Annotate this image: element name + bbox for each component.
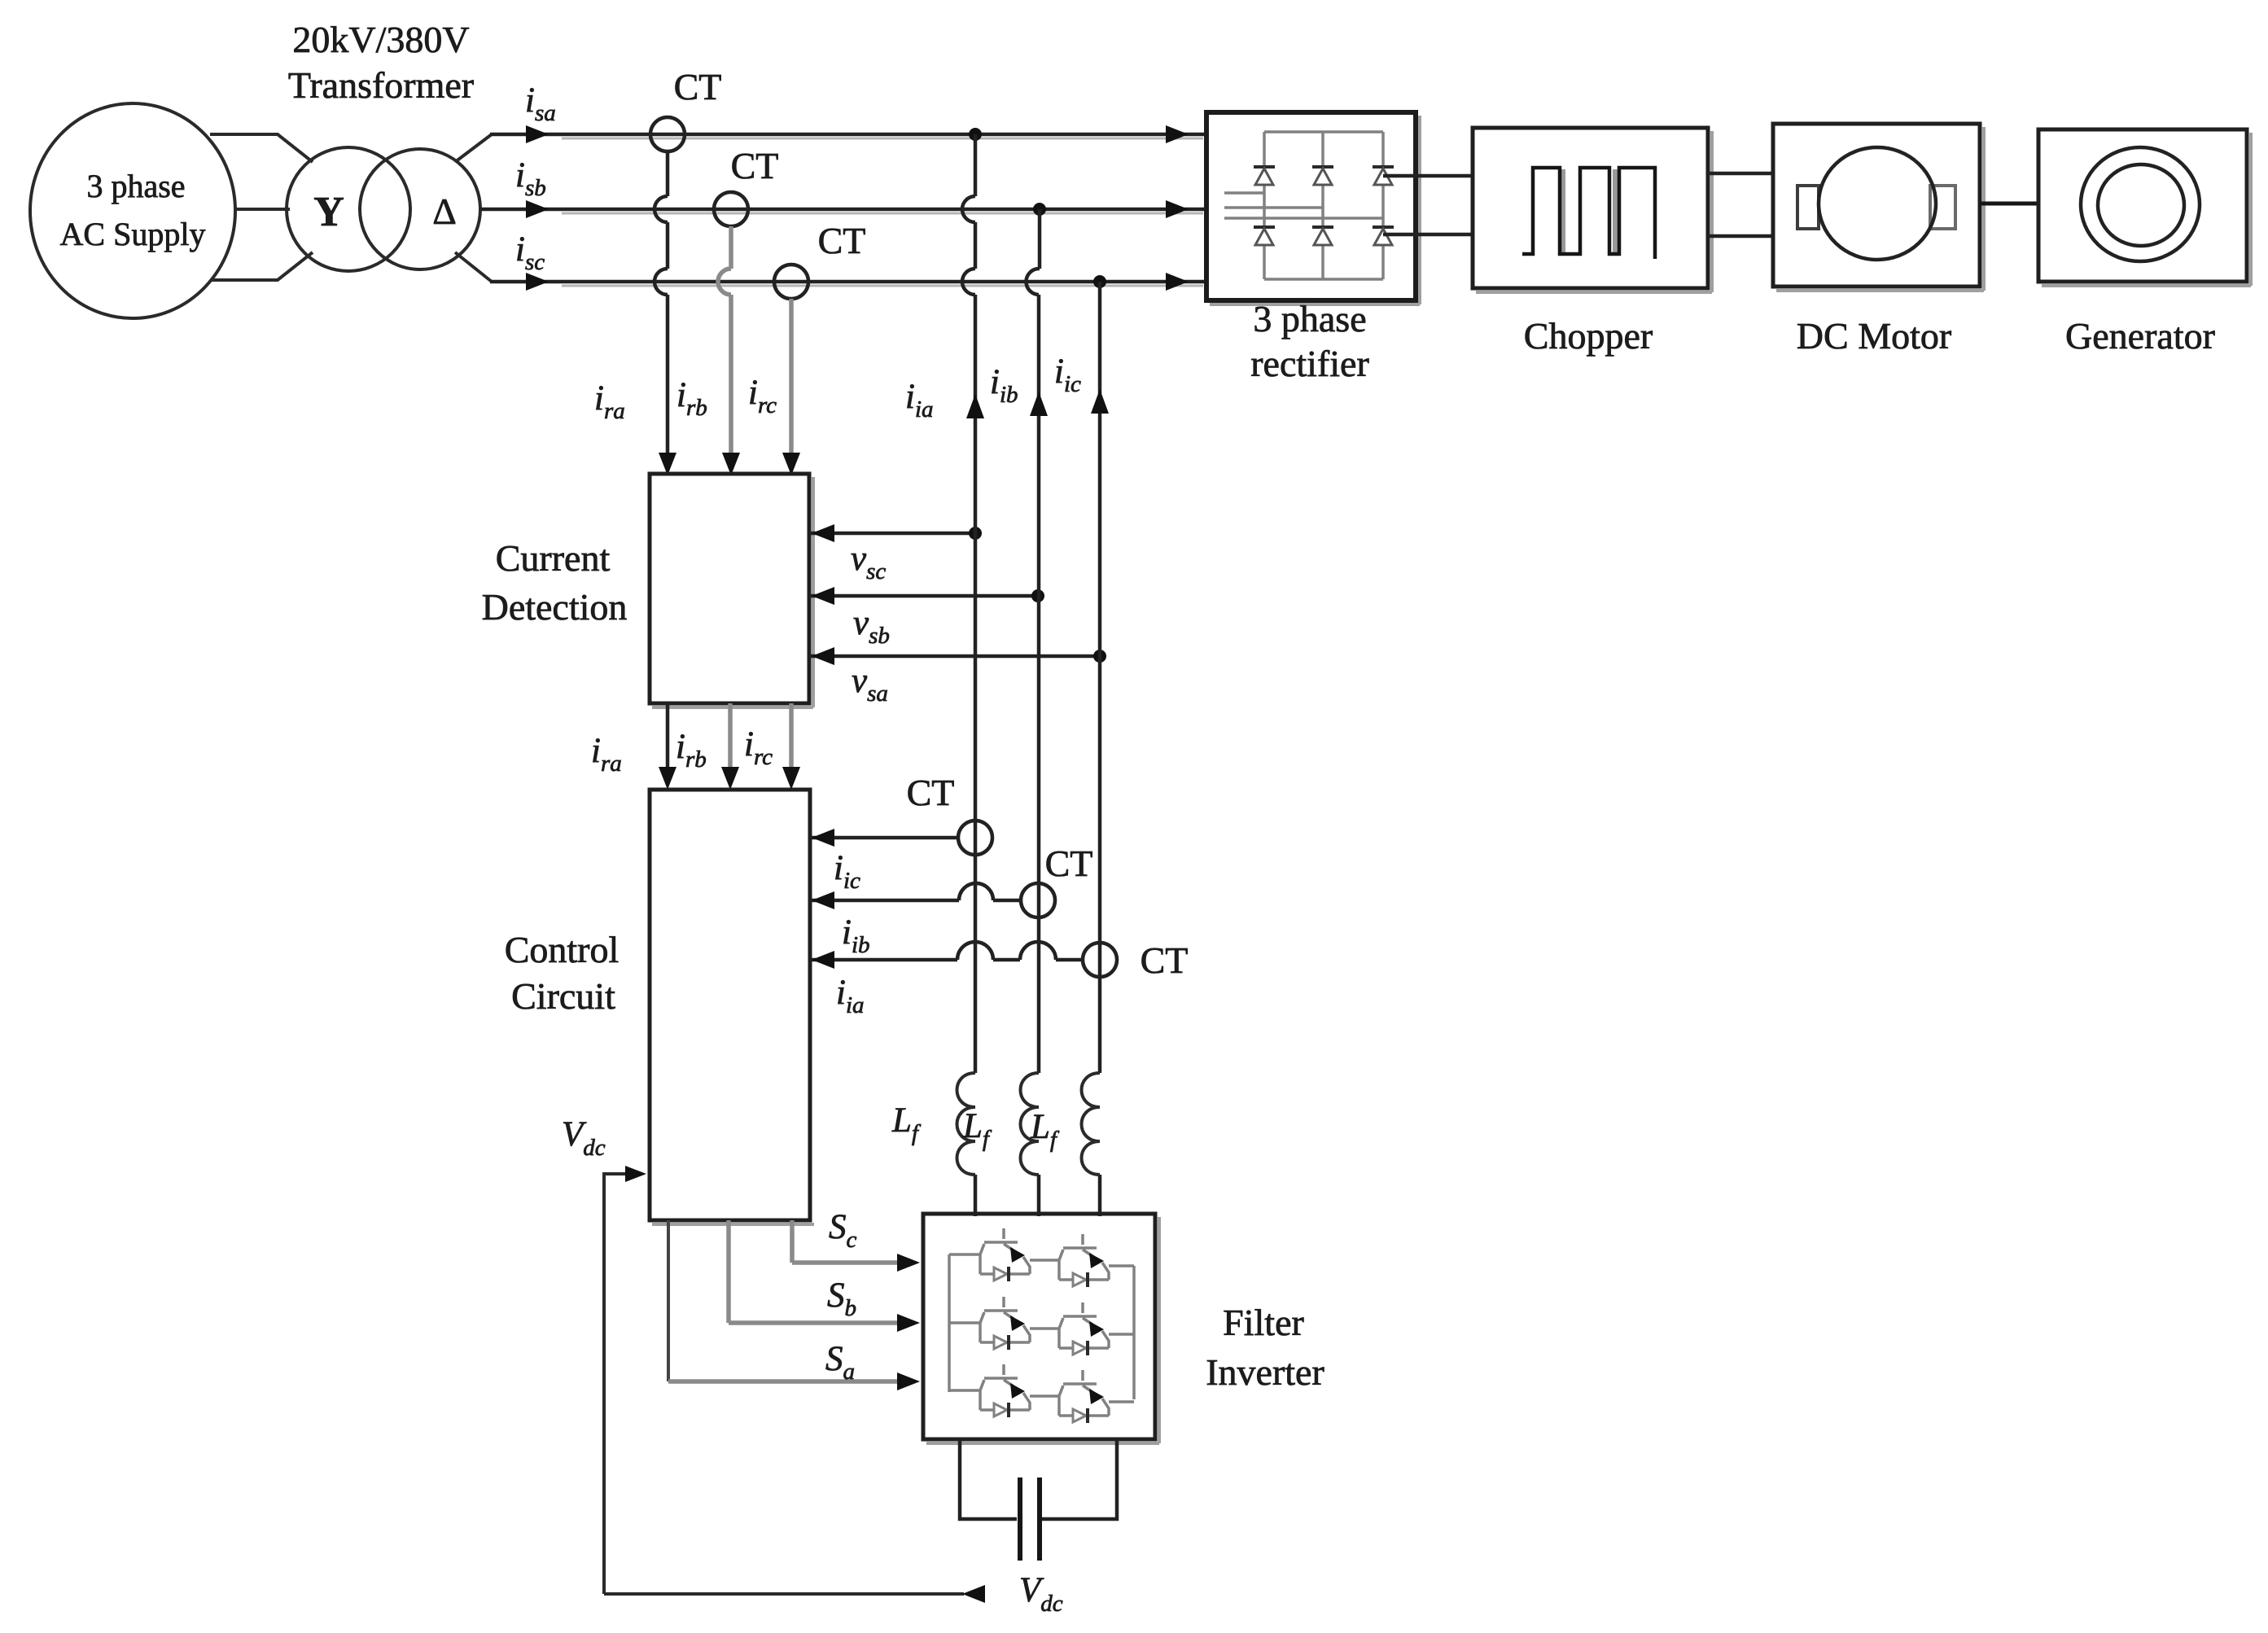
svg-text:Detection: Detection — [482, 586, 628, 628]
svg-text:Circuit: Circuit — [511, 975, 615, 1017]
svg-text:DC Motor: DC Motor — [1797, 315, 1951, 357]
svg-text:Current: Current — [496, 537, 611, 579]
svg-text:rectifier: rectifier — [1250, 343, 1369, 384]
svg-text:3 phase: 3 phase — [1253, 298, 1366, 339]
svg-text:3 phase: 3 phase — [86, 168, 185, 204]
svg-text:CT: CT — [907, 772, 955, 813]
svg-text:Filter: Filter — [1223, 1302, 1304, 1343]
svg-text:CT: CT — [818, 220, 866, 261]
svg-text:CT: CT — [674, 66, 722, 107]
svg-text:CT: CT — [1141, 939, 1189, 981]
svg-text:Chopper: Chopper — [1524, 315, 1653, 357]
svg-text:Generator: Generator — [2065, 315, 2215, 357]
svg-text:Transformer: Transformer — [288, 64, 474, 106]
svg-text:Y: Y — [313, 189, 344, 235]
svg-text:20kV/380V: 20kV/380V — [292, 19, 469, 60]
svg-text:AC Supply: AC Supply — [60, 216, 206, 252]
svg-text:Δ: Δ — [432, 190, 457, 232]
svg-text:CT: CT — [1045, 843, 1093, 884]
svg-text:CT: CT — [731, 145, 779, 186]
svg-text:Inverter: Inverter — [1206, 1351, 1324, 1393]
svg-text:Control: Control — [505, 929, 620, 970]
